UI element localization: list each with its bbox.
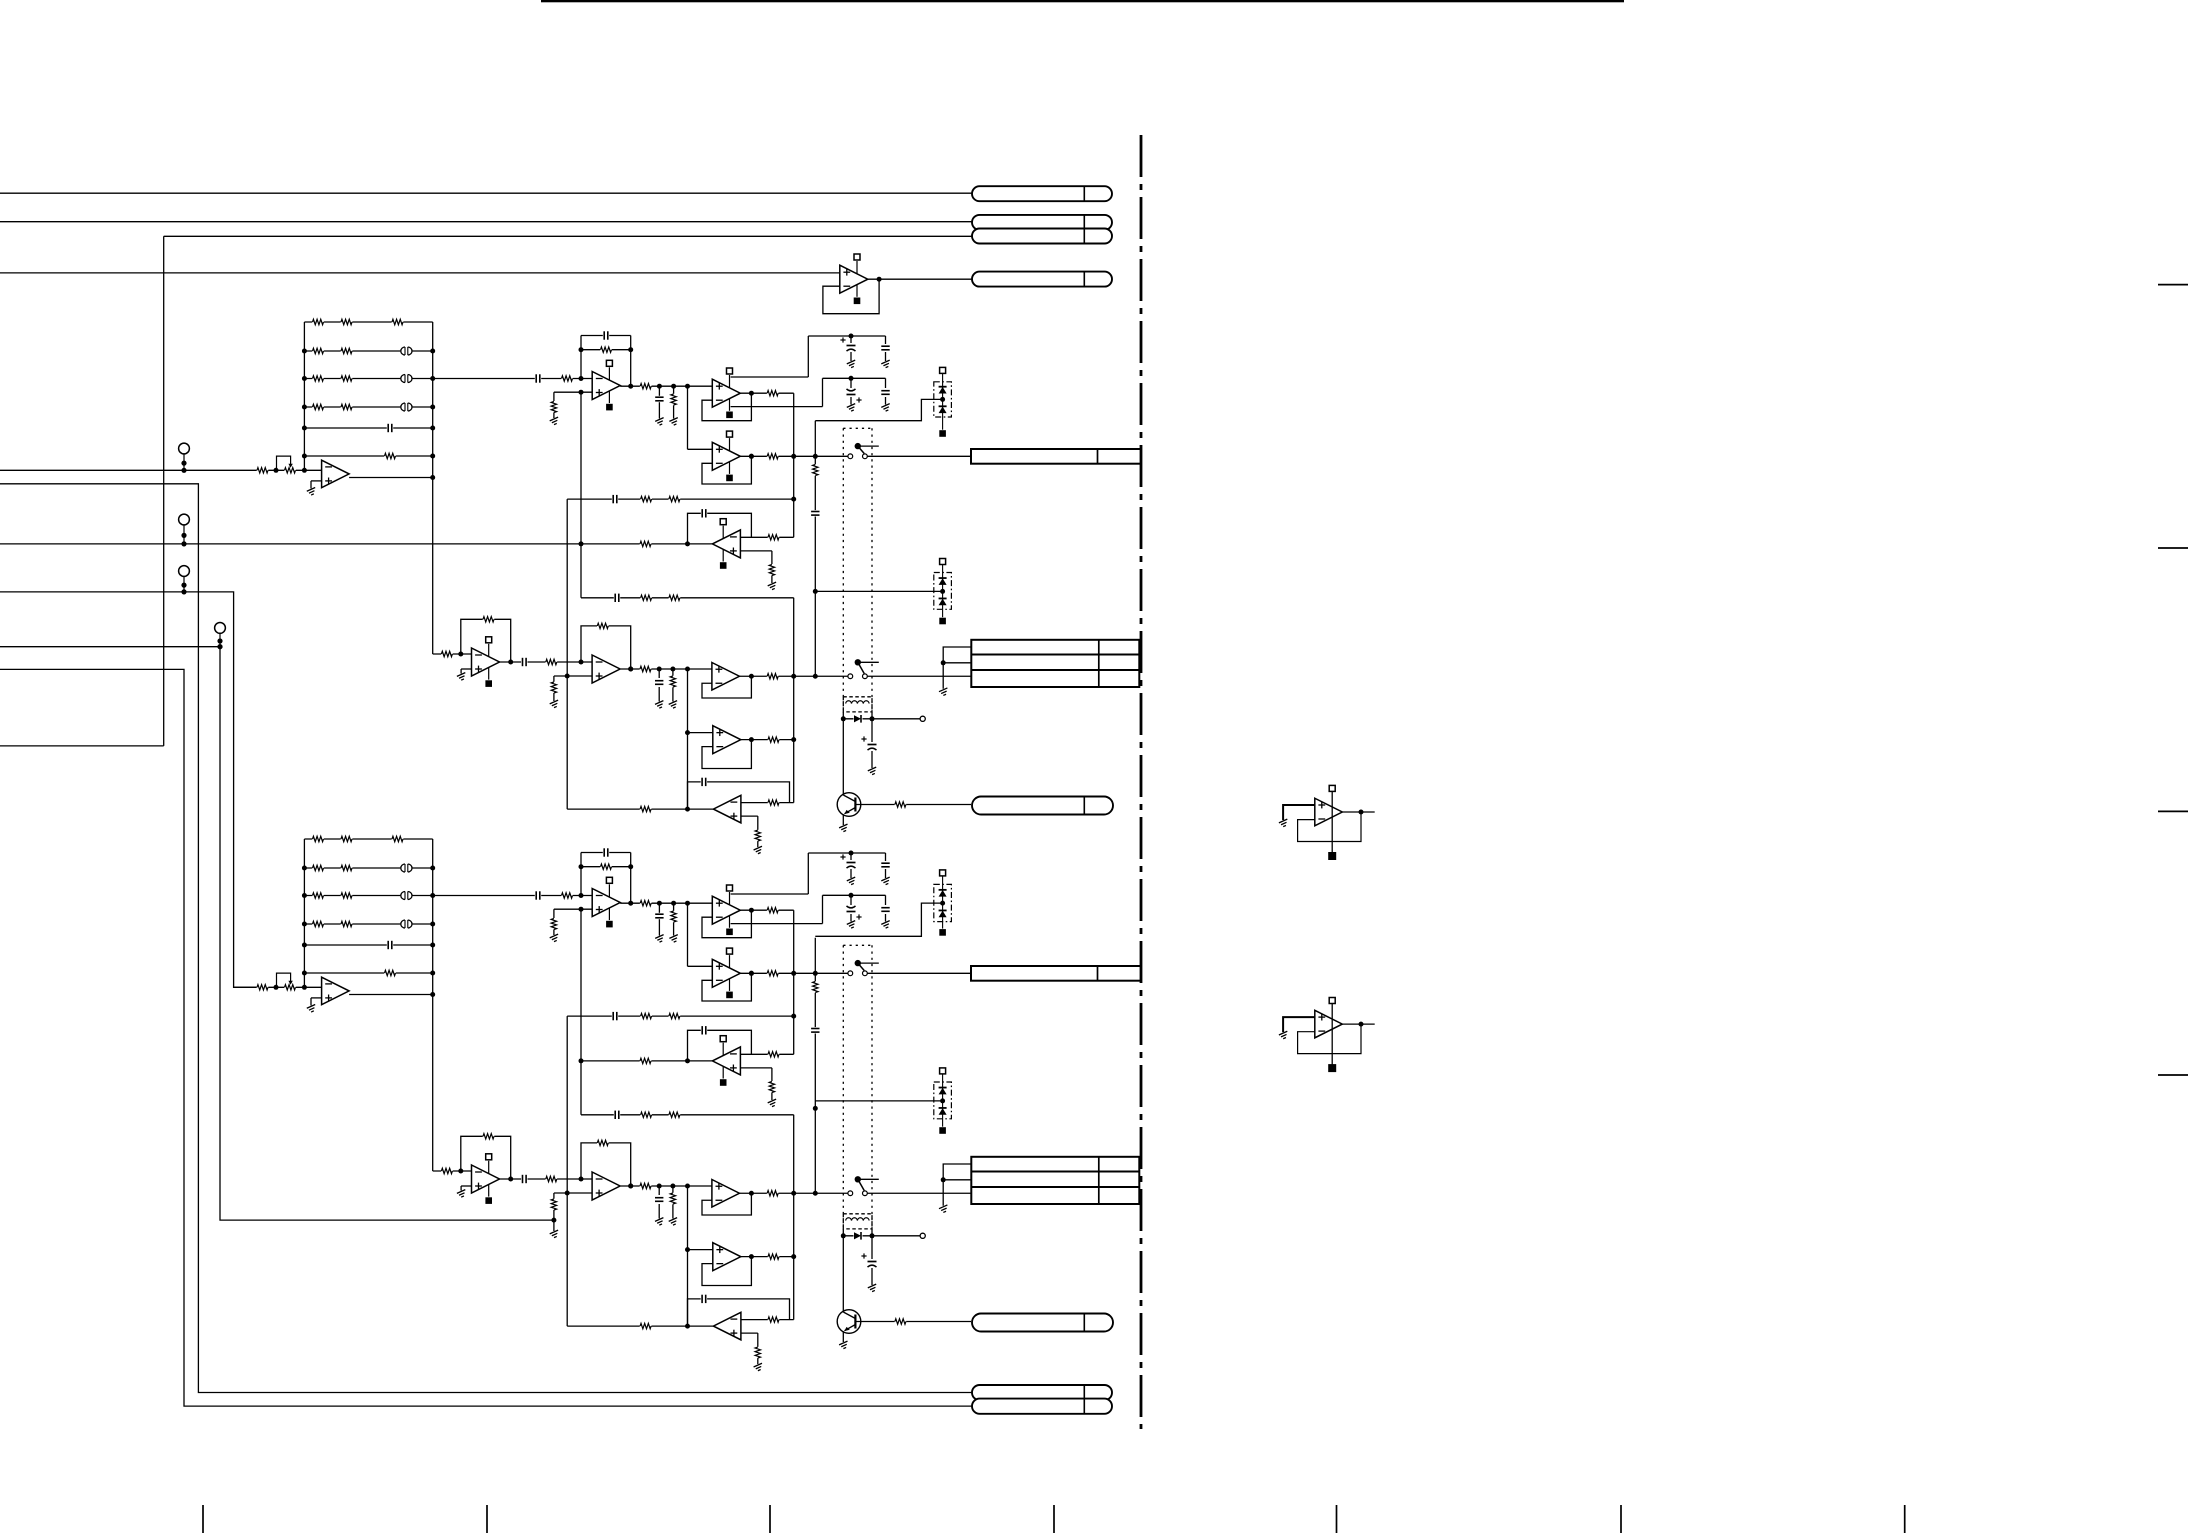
wire buffer + input [311,481,322,489]
zener pair D2 box [934,573,952,610]
capacitor C U8 out [521,1174,527,1184]
transistor Q1 [837,793,861,825]
wire buffer output [349,475,435,480]
wire bus W1 [0,192,972,194]
capacitor C fb U6 [701,1294,707,1304]
connector CN14 pill4 [972,272,1112,287]
wire U2 output row [620,384,712,389]
wire positive cap rail [808,851,885,856]
wire U6 minus row [741,1319,794,1321]
wire U3 feedback [702,391,754,421]
op-amp U11A [713,726,741,754]
ground C pos 1 [847,877,858,885]
resistor R bias U9 [550,682,557,694]
ground U9 bias [550,700,561,708]
wire U9 res stem [672,1186,674,1219]
wire U6 bias gnd stem [757,1358,759,1364]
resistor R fb U8 [483,1133,495,1140]
capacitor C fb U2 [603,331,609,341]
wire U9 out row [621,1184,712,1189]
resistor R bias U9 [550,1199,557,1211]
capacitor C pos rail polarized [840,337,856,352]
wire ladder row 3 [302,893,435,898]
wire ladder res row [302,971,435,976]
relay pole1 common [855,960,879,971]
wire U3 output [740,909,793,911]
connector CN15 pill5 [972,1385,1112,1400]
connector CN6 (3 row) [971,1157,1139,1204]
wire collector [842,719,844,795]
connector CN11 pill1 [972,186,1112,201]
op-amp U10B (line drv) [712,1180,740,1208]
wire U5 minus row [740,536,793,538]
wire bus W6 [0,484,972,1393]
wire ladder right rail [432,839,434,1171]
zener pair D1 power square [940,367,946,373]
trimmer RV2 [277,973,296,991]
wire fb row 3 [581,1114,794,1116]
wire U5 fb cap loop [688,513,752,544]
wire U5 bias gnd stem [771,1093,773,1101]
wire U8 feedback [461,619,513,664]
connector CN2 (3 row) [971,640,1139,687]
wire coil terminals [841,712,875,721]
fold tick right 3 [2158,810,2188,812]
wire U2 output row [620,901,712,906]
wire to test terminal [872,718,920,720]
resistor R fb U5 [768,534,780,541]
wire U13 + gnd [1283,805,1315,820]
wire U4 output / pole1 [740,971,848,976]
wire U2 feedback res row [579,864,634,869]
trimmer RV1 [277,456,296,474]
connector CN13 pill3 [972,229,1112,244]
capacitor C fb U6 [701,777,707,787]
ground buffer + [307,1005,318,1013]
capacitor C pos rail 2 [881,862,891,868]
terminal open circle [920,1233,925,1238]
wire ladder cap row [302,426,435,431]
op-amp U6B (inv L2) [713,1312,741,1340]
resistor R fb U9 [597,622,609,629]
op-amp U14 [1315,998,1343,1073]
resistor R base [895,1318,907,1325]
op-amp U6A (inv L2) [713,795,741,823]
wire diode box1 feed [815,903,942,936]
wire U2 input row [433,895,593,897]
resistor R bias U5 [768,1081,775,1093]
wire U9 + row [554,674,592,683]
terminal open circle [920,716,925,721]
capacitor C U9 gnd [654,679,664,685]
wire input row [0,468,322,473]
capacitor C pos rail polarized [840,854,856,869]
resistor ladder row 4 b [341,920,353,927]
wire U3 power bottom [731,895,823,923]
fold tick bottom 3 [769,1505,771,1533]
wire U7 feedback [702,1254,754,1285]
resistor R in U2 [561,892,573,899]
wire bus W10 [0,669,972,1406]
capacitor C neg rail polarized [846,905,862,920]
zener pair D52 box [934,1082,952,1119]
connector CN3 (relay drive) [972,797,1113,815]
wire res out stem [673,903,675,935]
wire pcap pos stem [850,853,852,878]
resistor R row1 b [669,496,681,503]
wire U14 feedback [1298,1024,1361,1054]
connector CN7 (relay drive) [972,1314,1113,1332]
wire pcap pos stem [850,336,852,361]
ground C pos 2 [881,877,892,885]
wire U3 feedback [702,908,754,938]
capacitor C row3 [614,1110,620,1120]
wire ladder row 1 [304,838,432,840]
diode D flyback [854,1232,863,1240]
wire U7a out [739,1191,848,1196]
wire U7 out [741,737,796,742]
wire mid vertical seg2 [687,1186,689,1326]
connector CN12 pill2 [972,215,1112,230]
wire collector [842,1236,844,1312]
capacitor ladder row [387,423,393,433]
wire CN row2 tie [943,1179,971,1181]
relay contact pole1 right [863,971,868,976]
wire bus W4 [0,272,840,274]
resistor R row1 b [669,1013,681,1020]
resistor R out to gnd [670,394,677,406]
node U2 inv [579,893,584,898]
resistor R U8 out [546,658,558,665]
wire to U4 + input [688,386,713,449]
resistor ladder row 2 a [312,864,324,871]
op-amp U1B (ladder buffer) [322,977,350,1005]
wire CN row2 tie [943,662,971,664]
ground R out [669,935,680,943]
op-amp U8B (gain) [472,1154,500,1204]
resistor R row1 a [640,1013,652,1020]
wire base to CN [855,1321,971,1323]
ground U5 bias [768,1099,779,1107]
zener pair D51 gnd square [939,929,946,936]
op-amp U1A (ladder buffer) [322,460,350,488]
wire U3 power top [731,336,809,377]
op-amp U10A (line drv) [712,663,740,691]
resistor R row3 a [640,1111,652,1118]
resistor R base [895,801,907,808]
wire U13 feedback [1298,812,1361,842]
ground R U9 [669,701,680,709]
wire U6 + bias [741,1333,758,1347]
resistor R fb U5 [768,1051,780,1058]
connector CN1 (line out) [971,449,1141,464]
op-amp U4B (driver B) [712,948,740,998]
wire cap out stem [658,903,660,935]
wire U5 + bias [740,1068,772,1081]
test point TP3 [179,566,190,595]
resistor R fb U2 [600,863,612,870]
wire U3 output [740,392,793,394]
wire U12 out [868,277,972,282]
ground U2 bias [550,934,561,942]
resistor R151 [312,835,403,842]
wire U4 output / pole1 [740,454,848,459]
relay RY2 box [843,945,872,1229]
resistor R fb U6 [768,1316,780,1323]
wire negative cap rail [823,376,886,381]
ground U9 bias [550,1230,561,1238]
wire fb row 3 [581,597,794,599]
ground U14 [1279,1031,1290,1039]
wire U9 bias gnd stem [551,1210,556,1231]
ground CN tie [939,688,950,696]
relay contact pole2 left [848,674,853,679]
wire coil terminals [841,1229,875,1238]
resistor R in U8 [441,650,453,657]
wire U2 + bias [554,390,592,401]
ground C neg 2 [881,404,892,412]
wire RC chain [813,938,818,1194]
wire bus W8 [0,592,256,987]
wire U6 fb cap loop [688,782,790,809]
diode D flyback [854,715,863,723]
wire U2 feedback top [581,335,631,337]
resistor R out U4 [767,970,779,977]
wire U6 minus row [741,802,794,804]
wire bus W9 [0,644,554,1220]
capacitor C relay polarized [861,736,877,751]
fold tick right 4 [2158,1074,2188,1076]
resistor R fb U6 [768,799,780,806]
wire ladder left rail [303,322,305,470]
resistor R fb U9 [597,1139,609,1146]
wire pcap stem [871,719,873,768]
ground C U9 [655,701,666,709]
resistor R U9 gnd [669,676,676,688]
capacitor C U9 gnd [654,1196,664,1202]
op-amp U5A (inv L) [712,519,740,569]
ground U5 bias [768,582,779,590]
wire vertical bus A [566,1016,568,1326]
op-amp U8A (gain) [472,637,500,687]
wire U5 + bias [740,551,772,564]
connector CN16 pill6 [972,1399,1112,1414]
resistor R out U3 [767,907,779,914]
ground emitter [839,1341,850,1349]
wire U5 fb cap loop [688,1030,752,1061]
wire node vertical A1 [793,910,795,1054]
wire cap pos 2 stem [885,853,887,878]
op-amp U2A (first stage) [592,360,620,410]
ground C U9 [655,1218,666,1226]
resistor R in U5 [640,540,652,547]
capacitor C neg rail polarized [846,388,862,403]
wire node vertical B2 [793,598,795,803]
ground emitter [839,824,850,832]
resistor R out U4 [767,453,779,460]
op-amp U2B (first stage) [592,877,620,927]
wire U7 + input [685,1247,713,1252]
wire U8 + input [461,1186,471,1191]
resistor R U7 out [768,1253,780,1260]
wire negative cap rail [823,893,886,898]
node U2 inv [579,376,584,381]
wire U2 feedback top [581,852,631,854]
ground CN tie [939,1205,950,1213]
ground U8 + [457,673,468,681]
resistor R in U2 [561,375,573,382]
wire U2 feedback res row [579,347,634,352]
capacitor C in U2 [535,374,541,384]
resistor R U9 out [640,1182,652,1189]
ground C neg 1 [847,921,858,929]
capacitor C row1 [612,1011,618,1021]
wire node vertical B2 [793,1115,795,1320]
wire buffer + input [311,998,322,1006]
ground R out [669,418,680,426]
wire pole2 to CN [867,1192,971,1194]
resistor R U7 out [768,736,780,743]
wire U8 feedback [461,1136,513,1181]
resistor R chain [812,464,819,476]
capacitor C neg rail 2 [881,389,891,395]
resistor ladder res row [384,969,396,976]
resistor R U8 out [546,1175,558,1182]
wire U7a out [739,674,848,679]
fold chain line [1140,135,1143,1429]
wire U9 feedback [581,626,633,672]
wire U8 out row [500,1177,593,1182]
resistor R bias U2 [550,401,557,413]
wire RC chain [813,421,818,677]
zener pair D51 internals [939,876,947,929]
wire buffer output [349,992,435,997]
wire pcap neg stem [850,895,852,921]
resistor ladder row 3 a [312,375,324,382]
wire U6 fb cap loop [688,1299,790,1326]
zener pair D52 power square [940,1068,946,1074]
resistor R in U8 [441,1167,453,1174]
ground R U9 [669,1218,680,1226]
capacitor C out to gnd [654,913,664,919]
wire U2 input row [433,378,593,380]
wire U6 input row [567,807,713,812]
wire ladder left rail [303,839,305,987]
resistor R fb U8 [483,616,495,623]
ground C pos 1 [847,360,858,368]
connector CN5 (line out) [971,966,1141,981]
resistor R fb U2 [600,346,612,353]
wire ladder row 2 [302,349,435,354]
wire U9 out row [621,667,712,672]
wire node vertical A1 [793,393,795,537]
photo element ladder row 4 [400,402,412,411]
wire to test terminal [872,1235,920,1237]
resistor R U7a out [767,673,779,680]
zener pair D2 power square [940,559,946,565]
capacitor C chain [810,1027,820,1033]
wire pcap stem [871,1236,873,1285]
relay RY1 box [843,428,872,712]
wire U9 cap stem [658,1186,660,1219]
wire U13 out [1342,810,1374,815]
resistor input series [257,467,269,474]
fold tick bottom 7 [1904,1505,1906,1533]
wire U3 power bottom [731,378,823,406]
resistor R U9 out [640,665,652,672]
fold tick bottom 2 [486,1505,488,1533]
relay coil [843,1214,872,1229]
wire fb row 1 [567,1014,796,1019]
resistor R101 [312,318,403,325]
wire bus W2 [0,221,972,223]
relay contact pole1 left [848,454,853,459]
resistor ladder row 4 a [312,920,324,927]
op-amp U3A (driver A) [712,368,740,418]
wire cap pos 2 stem [885,336,887,361]
wire mid vertical seg2 [687,669,689,809]
op-amp U13 [1315,785,1343,860]
wire U8 input row [433,652,472,657]
capacitor C neg rail 2 [881,906,891,912]
ground U6 bias [754,1363,765,1371]
capacitor C fb U5 [701,508,707,518]
photo element ladder row 3 [400,374,412,383]
resistor R chain [812,981,819,993]
wire U8 input row [433,1169,472,1174]
resistor R row3 a [640,594,652,601]
wire U8 out row [500,660,593,665]
relay coil [843,697,872,712]
wire U9 feedback [581,1143,633,1189]
wire diode box2 feed [815,590,942,592]
wire U4 feedback [702,971,754,1001]
photo element ladder row 3 [400,891,412,900]
resistor R out U2 [640,383,652,390]
wire U5 bias gnd stem [771,576,773,584]
photo element ladder row 2 [400,863,412,872]
op-amp U9A [592,655,620,683]
wire U9 cap stem [658,669,660,702]
fold tick bottom 5 [1336,1505,1338,1533]
title bar [541,0,1624,2]
resistor R out U3 [767,390,779,397]
fold tick right 2 [2158,547,2188,549]
capacitor C chain [810,510,820,516]
wire U9 res stem [672,669,674,702]
resistor R row3 b [669,1111,681,1118]
wire node vertical B [580,392,582,598]
resistor R in U6 [640,1323,652,1330]
wire node vertical B [580,909,582,1115]
wire pcap neg stem [850,378,852,404]
resistor R in U5 [640,1057,652,1064]
wire ladder row 4 [302,405,435,410]
resistor R U9 gnd [669,1193,676,1205]
capacitor C fb U2 [603,848,609,858]
ground buffer + [307,488,318,496]
wire U6 + bias [741,816,758,830]
wire U9 + row [554,1191,592,1200]
zener pair D1 internals [939,373,947,429]
wire bus W7 [0,543,581,545]
resistor R bias U5 [768,564,775,576]
resistor ladder row 2 b [341,864,353,871]
zener pair D2 internals [939,565,947,618]
wire U2 feedback right [630,853,632,904]
relay contact pole2 right [863,674,868,679]
wire U2 feedback right [630,336,632,387]
